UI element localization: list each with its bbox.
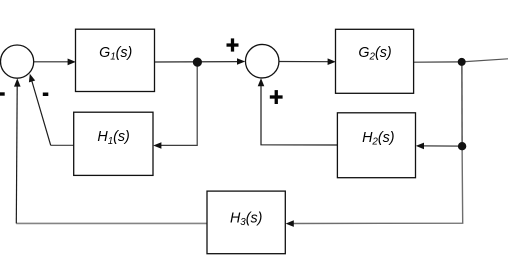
arrowhead into S2 bottom [258, 78, 265, 86]
wire node N3 to H2 [424, 145, 463, 147]
summing junction S1 [1, 45, 34, 78]
arrowhead into S2 [237, 58, 245, 65]
wire from H3 left to bottom-left corner [16, 222, 207, 224]
plus sign at S2 left input [227, 38, 239, 51]
arrowhead into H1 [153, 142, 161, 149]
wire bottom-left corner up to S1 bottom [15, 86, 18, 224]
svg-text:H3(s): H3(s) [230, 210, 262, 228]
arrowhead into G2 [328, 58, 336, 65]
wire node N3 down and left to H3 [293, 146, 463, 223]
minus sign at S1 diagonal input [43, 93, 49, 97]
arrowhead into H3 [286, 220, 294, 227]
wire node N1 down to H1 level [161, 62, 198, 145]
node N3 dot [458, 142, 466, 150]
arrowhead into G1 [68, 59, 76, 66]
arrowhead diagonal into S1 [29, 74, 35, 83]
summing junction S2 [245, 44, 279, 77]
block H3 [207, 191, 285, 254]
diagonal wire from corner up to S1 [32, 81, 51, 146]
svg-text:H2(s): H2(s) [362, 130, 394, 148]
wire node N2 down to node N3 [461, 62, 463, 146]
wire from summing junction S1 to G1 [34, 61, 69, 63]
svg-text:G2(s): G2(s) [358, 45, 391, 63]
block H2 [337, 113, 415, 178]
arrowhead into S1 bottom [14, 78, 21, 86]
block H1 [74, 112, 153, 175]
block G2 [336, 29, 414, 93]
minus sign at S1 left (clipped at edge) [0, 92, 5, 95]
output wire from node N2 to right edge [462, 59, 508, 62]
node N1 dot [193, 58, 202, 67]
wire from S2 to G2 [279, 61, 329, 63]
node N2 dot [458, 58, 466, 66]
svg-text:H1(s): H1(s) [97, 129, 129, 147]
arrowhead into H2 [416, 143, 424, 150]
wire from G2 to node N2 [414, 61, 462, 63]
wire from H1 left to diagonal corner [51, 144, 74, 146]
wire from G1 to summing junction S2 [155, 61, 239, 63]
plus sign at S2 bottom input [270, 90, 283, 104]
block G1 [76, 29, 155, 91]
wire from H2 left up to S2 bottom [261, 86, 337, 146]
svg-text:G1(s): G1(s) [99, 45, 132, 63]
